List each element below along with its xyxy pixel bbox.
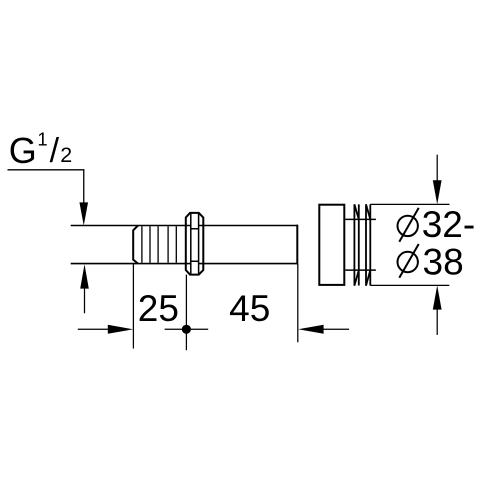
- washer 2: [366, 204, 370, 286]
- arrow left to tube-end extension: [298, 325, 323, 334]
- svg-text:32-: 32-: [422, 204, 475, 245]
- dim line 45 right part: [322, 328, 349, 330]
- dim line bottom (cap OD): [370, 284, 449, 286]
- svg-text:G: G: [9, 130, 37, 171]
- nut front facet lines: [191, 229, 199, 262]
- diameter symbol line 2: [398, 252, 418, 272]
- vertical dim line upper: [436, 155, 438, 181]
- leader vertical drop: [83, 170, 85, 207]
- arrow down to top dim line: [433, 180, 442, 204]
- vertical dim line lower: [436, 309, 438, 335]
- escutcheon cap: [319, 205, 344, 285]
- svg-text:45: 45: [229, 288, 270, 329]
- tube right end: [296, 225, 298, 265]
- extension line at nut centre: [185, 275, 187, 351]
- arrow right to extension line: [108, 325, 133, 334]
- diameter arrow up at tube bottom: [84, 288, 86, 313]
- dim line through dot: [165, 328, 209, 330]
- washer 1: [354, 204, 358, 286]
- nut facet vertical edges: [191, 214, 199, 274]
- dim line 25 left part: [78, 328, 110, 330]
- neck bottom line: [345, 269, 376, 271]
- tube top line: [71, 225, 298, 227]
- svg-text:38: 38: [423, 241, 464, 282]
- extension line left (thread start): [132, 264, 134, 349]
- dim line top (cap OD): [370, 203, 449, 205]
- hex nut outline: [186, 213, 204, 275]
- arrow up to bottom dim line: [433, 285, 442, 309]
- svg-text:1: 1: [37, 129, 47, 150]
- thread crest lines: [142, 226, 176, 262]
- dimension dot: [182, 325, 191, 334]
- extension line right (tube end): [297, 264, 299, 342]
- arrow down to tube top line: [79, 202, 88, 225]
- diameter symbol line 1: [398, 216, 418, 236]
- thread block left edge with chamfers: [133, 226, 138, 264]
- leader underline under G1/2: [8, 169, 85, 171]
- svg-text:2: 2: [60, 143, 72, 167]
- svg-text:/: /: [50, 132, 60, 170]
- svg-text:25: 25: [138, 288, 179, 329]
- thread label G1/2: [9, 129, 73, 171]
- neck top line: [345, 218, 376, 220]
- tube bottom line: [71, 263, 298, 265]
